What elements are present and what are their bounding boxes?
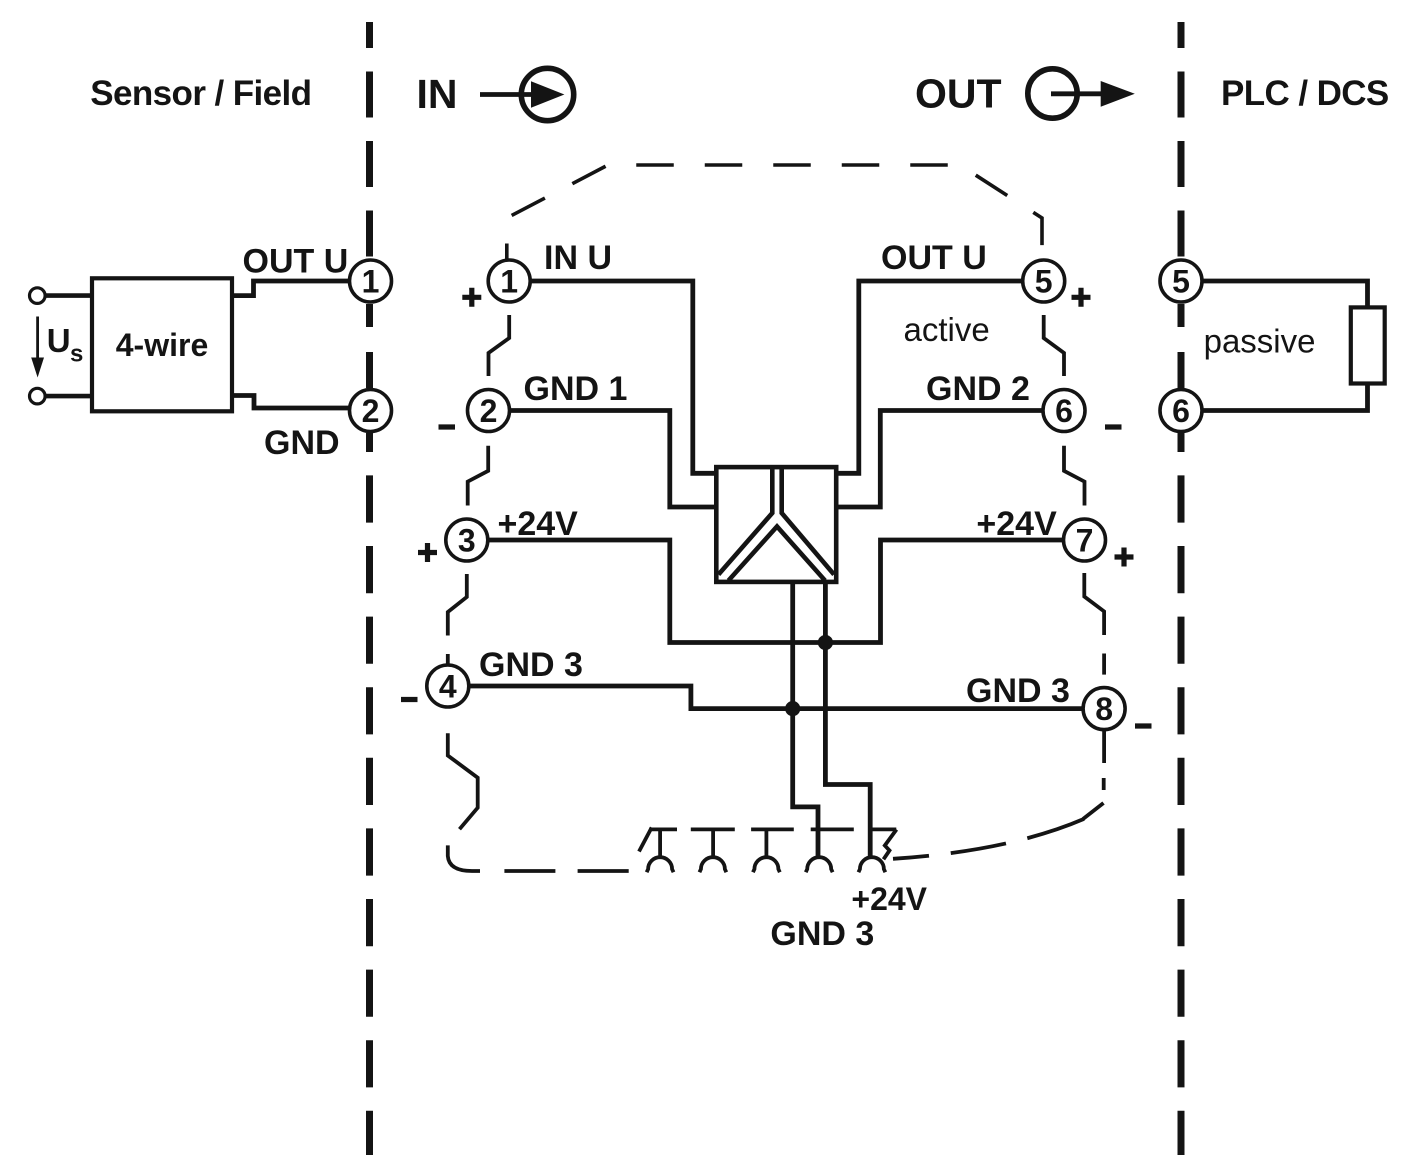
wire +24V left: terminal 3 to junction — [488, 540, 1064, 643]
svg-text:GND 3: GND 3 — [966, 672, 1070, 710]
device terminal 7 — [1064, 519, 1106, 561]
terminal 2 on left boundary — [350, 390, 392, 432]
supply contact 4 (GND 3 pin) — [806, 829, 854, 872]
svg-text:3: 3 — [458, 523, 476, 559]
junction dot GND 3 rail — [785, 701, 800, 716]
minus sign at device terminal 4 — [401, 697, 418, 702]
Us voltage arrow — [31, 317, 44, 378]
enclosure jog between terminals 5 and 6 — [1044, 315, 1064, 376]
plus sign at device terminal 5 — [1072, 288, 1091, 307]
wire isolator bottom tap to +24V rail and contact 5 — [825, 582, 870, 858]
wire 4-wire box to terminal 1 (OUT U) — [232, 281, 350, 296]
wire OUT U: isolator to terminal 5 — [836, 281, 1023, 473]
enclosure jog between terminals 1 and 2 — [489, 315, 510, 376]
boundary dashed line right (OUT | PLC/DCS) — [1178, 22, 1185, 1155]
isolator Y symbol — [719, 467, 835, 580]
plus sign at device terminal 7 — [1115, 548, 1134, 567]
svg-text:2: 2 — [480, 393, 498, 429]
OUT icon (arrow out of circle) — [1028, 69, 1135, 118]
wire terminal 5 to load resistor — [1202, 281, 1368, 307]
svg-text:U: U — [47, 322, 71, 359]
svg-text:5: 5 — [1035, 264, 1053, 300]
device terminal 2 — [468, 390, 510, 432]
enclosure jog below terminal 8 and bottom-right dashed curve — [893, 731, 1104, 859]
wire sensor bottom to 4-wire box — [46, 394, 92, 399]
wire sensor top to 4-wire box — [46, 293, 92, 298]
sensor terminal (open circle, top) — [30, 288, 46, 304]
device terminal 6 — [1043, 390, 1085, 432]
4-wire sensor box — [92, 278, 232, 411]
svg-text:GND 1: GND 1 — [524, 370, 628, 408]
wire load resistor to terminal 6 — [1203, 384, 1368, 411]
junction dot +24V rail — [818, 635, 833, 650]
enclosure jog between terminals 6 and 7 — [1064, 446, 1085, 506]
device terminal 4 — [427, 665, 469, 707]
svg-text:8: 8 — [1095, 691, 1113, 727]
terminal 6 on right boundary — [1160, 390, 1202, 432]
wire isolator bottom tap to GND 3 rail and contact 4 — [793, 582, 818, 858]
wire GND 3: terminal 4 to terminal 8 — [469, 686, 1083, 709]
IN icon (arrow into circle) — [480, 68, 574, 120]
device terminal 3 — [446, 519, 488, 561]
wire IN U: terminal 1 to isolator — [530, 281, 716, 473]
svg-text:OUT U: OUT U — [881, 239, 987, 277]
svg-text:1: 1 — [500, 264, 518, 300]
svg-text:Sensor / Field: Sensor / Field — [90, 74, 311, 113]
svg-text:+24V: +24V — [851, 881, 927, 917]
svg-text:OUT U: OUT U — [243, 242, 349, 280]
device enclosure dashed outline, top arc — [507, 165, 1042, 260]
svg-text:GND 3: GND 3 — [479, 646, 583, 684]
svg-text:active: active — [904, 311, 990, 348]
svg-text:IN U: IN U — [544, 239, 612, 277]
device terminal 5 — [1023, 260, 1065, 302]
svg-text:2: 2 — [362, 393, 380, 429]
label U with subscript s — [47, 322, 84, 368]
supply contact 5 (+24V pin) with enclosure end jog — [859, 829, 897, 872]
minus sign at device terminal 6 — [1105, 424, 1122, 429]
svg-text:GND: GND — [264, 424, 340, 462]
device terminal 8 — [1083, 688, 1125, 730]
svg-text:4-wire: 4-wire — [116, 327, 208, 363]
minus sign at device terminal 8 — [1135, 723, 1152, 728]
supply contact 3 — [751, 829, 794, 872]
supply contact 2 — [691, 829, 735, 872]
svg-text:6: 6 — [1055, 393, 1073, 429]
svg-text:+24V: +24V — [498, 505, 579, 543]
wire GND 1: terminal 2 to isolator — [510, 411, 717, 508]
svg-text:4: 4 — [439, 669, 457, 705]
sensor terminal (open circle, bottom) — [30, 388, 46, 404]
minus sign at device terminal 2 — [439, 424, 456, 429]
svg-text:7: 7 — [1076, 523, 1094, 559]
enclosure jog between terminals 7 and 8 — [1084, 573, 1104, 675]
svg-text:GND 3: GND 3 — [770, 915, 874, 953]
boundary dashed line left (Sensor/Field | IN) — [366, 22, 373, 1155]
svg-text:IN: IN — [417, 71, 458, 117]
svg-text:passive: passive — [1204, 323, 1316, 360]
svg-text:5: 5 — [1172, 264, 1190, 300]
svg-text:+24V: +24V — [976, 505, 1057, 543]
enclosure jog below terminal 4 and bottom-left dashed curve — [448, 733, 629, 871]
load resistor (passive) — [1351, 307, 1385, 383]
enclosure jog between terminals 2 and 3 — [468, 446, 489, 506]
wire 4-wire box to terminal 2 (GND) — [232, 396, 350, 409]
svg-text:6: 6 — [1172, 393, 1190, 429]
svg-text:OUT: OUT — [915, 71, 1002, 117]
isolator U1 box — [716, 467, 836, 582]
plus sign at device terminal 3 — [418, 543, 437, 562]
plus sign at device terminal 1 — [462, 288, 481, 307]
svg-text:GND 2: GND 2 — [926, 370, 1030, 408]
supply contact 1 (slash, bar, stem, socket arc) — [639, 828, 677, 873]
device terminal 1 — [488, 260, 530, 302]
enclosure jog between terminals 3 and 4 — [448, 574, 467, 665]
terminal 1 on left boundary — [350, 260, 392, 302]
svg-text:s: s — [70, 341, 83, 368]
wire GND 2: isolator to terminal 6 — [836, 411, 1043, 508]
terminal 5 on right boundary — [1160, 260, 1202, 302]
svg-text:1: 1 — [362, 264, 380, 300]
svg-text:PLC / DCS: PLC / DCS — [1221, 74, 1389, 113]
